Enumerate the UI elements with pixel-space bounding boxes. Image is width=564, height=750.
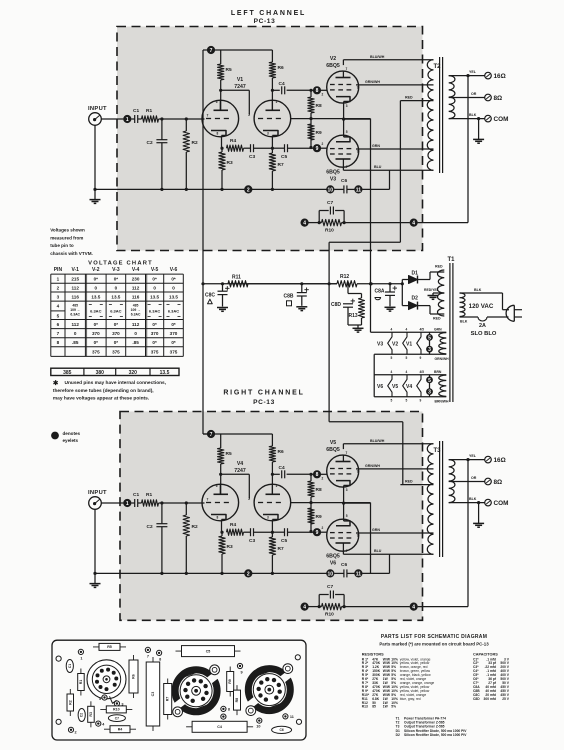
ground (HV center tap) xyxy=(428,295,439,297)
tube V5 envelope R xyxy=(327,455,359,487)
capacitor C2 L xyxy=(161,119,163,140)
svg-text:9: 9 xyxy=(241,671,243,675)
svg-text:2: 2 xyxy=(75,730,77,734)
svg-text:2: 2 xyxy=(247,571,250,577)
svg-text:1W: 1W xyxy=(383,705,389,709)
wire plate to splitter grid L xyxy=(219,89,222,92)
svg-text:5: 5 xyxy=(99,697,101,701)
heater eyelet 5 xyxy=(429,375,431,397)
wire diode anode bus xyxy=(401,280,403,306)
V4 pin1 stub R xyxy=(271,484,273,494)
svg-text:116: 116 xyxy=(132,294,140,299)
svg-text:2A: 2A xyxy=(479,323,486,329)
wire RED jog right xyxy=(329,421,403,423)
resistor R1 R xyxy=(138,502,142,504)
svg-text:R7: R7 xyxy=(278,162,284,168)
svg-text:370: 370 xyxy=(170,331,178,336)
svg-text:109 →: 109 → xyxy=(70,308,80,312)
resistor R6 R xyxy=(271,434,273,446)
svg-text:0*: 0* xyxy=(171,277,176,282)
svg-text:4: 4 xyxy=(391,328,393,332)
svg-text:0: 0 xyxy=(74,331,77,336)
svg-text:0*: 0* xyxy=(94,340,99,345)
tube V1 left envelope L xyxy=(202,100,239,137)
svg-text:0*: 0* xyxy=(152,340,157,345)
heater line top BRN xyxy=(374,374,446,376)
svg-text:R3: R3 xyxy=(227,544,233,550)
eyelet 9 L xyxy=(313,144,321,152)
svg-text:chassis with VTVM.: chassis with VTVM. xyxy=(50,251,93,256)
capacitor C1 R xyxy=(131,502,134,504)
ground (input) L xyxy=(90,199,101,201)
T3 core R xyxy=(439,441,441,557)
wire OR 8ohm R xyxy=(449,481,485,483)
svg-text:2: 2 xyxy=(322,477,324,481)
board tube socket (output tube) xyxy=(175,670,217,712)
C8C triangle mark xyxy=(208,299,213,304)
svg-text:6BQ5: 6BQ5 xyxy=(326,554,340,560)
board eyelet 11 xyxy=(283,714,288,719)
cathode junction wire R xyxy=(342,502,345,505)
svg-text:1: 1 xyxy=(57,277,60,282)
svg-text:V-5: V-5 xyxy=(151,267,159,273)
resistor R9 R xyxy=(308,508,314,524)
heater line bottom GRN/WH xyxy=(374,353,446,355)
V5 plate R xyxy=(336,461,351,463)
V4 left cathode R xyxy=(211,515,226,520)
svg-text:RED: RED xyxy=(433,317,441,321)
svg-text:10: 10 xyxy=(328,187,334,193)
svg-text:370: 370 xyxy=(92,331,100,336)
svg-text:R3: R3 xyxy=(89,712,93,717)
board part C1 xyxy=(66,660,73,673)
eyelet 2 R xyxy=(244,569,252,577)
svg-text:112: 112 xyxy=(132,322,140,327)
svg-text:8: 8 xyxy=(57,340,60,345)
capacitor C6 R xyxy=(334,572,343,574)
eyelet 9 R xyxy=(313,528,321,536)
svg-text:13.5: 13.5 xyxy=(150,294,159,299)
svg-text:8: 8 xyxy=(159,657,161,661)
svg-text:blue, gray, red: blue, gray, red xyxy=(400,697,421,701)
ground (COM) R xyxy=(477,501,480,504)
board part R5 xyxy=(93,646,126,648)
board eyelet 8 xyxy=(157,650,162,655)
input ground stem R xyxy=(94,509,96,583)
eyelet 10 R xyxy=(326,569,334,577)
svg-text:7: 7 xyxy=(346,67,348,71)
resistor R2 L xyxy=(185,119,187,131)
C8B square mark xyxy=(287,301,292,306)
svg-text:V5: V5 xyxy=(392,384,398,390)
wire R1 to grid L xyxy=(159,118,205,120)
120VAC loop top xyxy=(460,292,503,294)
svg-text:8: 8 xyxy=(228,707,230,711)
svg-text:T1: T1 xyxy=(447,257,455,263)
resistor R8 R xyxy=(310,474,312,481)
T2 primary winding L xyxy=(427,60,433,171)
svg-text:0*: 0* xyxy=(152,322,157,327)
wire RED feed left channel xyxy=(399,101,401,243)
resistor R6 L xyxy=(271,50,273,62)
svg-text:R2: R2 xyxy=(192,140,198,146)
svg-text:RED/YEL: RED/YEL xyxy=(424,288,439,292)
svg-text:0*: 0* xyxy=(94,322,99,327)
heater winding BRN xyxy=(439,375,447,396)
capacitor C8A xyxy=(389,284,391,292)
svg-text:375: 375 xyxy=(170,349,178,354)
svg-text:7: 7 xyxy=(346,451,348,455)
svg-text:5: 5 xyxy=(428,378,431,384)
eyelet 2 L xyxy=(244,185,252,193)
svg-text:R1: R1 xyxy=(146,108,152,114)
AC plug xyxy=(513,305,515,321)
resistor R12 xyxy=(337,281,357,287)
board eyelet 9 xyxy=(237,663,242,668)
svg-text:380: 380 xyxy=(96,370,105,376)
svg-text:9: 9 xyxy=(420,356,422,360)
svg-text:1: 1 xyxy=(276,100,278,104)
svg-text:6: 6 xyxy=(216,100,218,104)
svg-text:Unused pins may have internal: Unused pins may have internal connection… xyxy=(65,380,167,386)
V6 grids R xyxy=(330,532,335,534)
svg-text:7: 7 xyxy=(210,432,213,438)
svg-text:C8A: C8A xyxy=(375,289,385,295)
svg-text:9: 9 xyxy=(316,146,319,152)
V3 grids L xyxy=(330,148,335,150)
svg-text:25 V: 25 V xyxy=(502,697,510,701)
wire RED B+ to T2 L xyxy=(400,100,433,102)
terminal 8 ohm R xyxy=(485,478,492,485)
svg-text:8Ω: 8Ω xyxy=(494,479,503,486)
svg-text:0: 0 xyxy=(134,331,137,336)
V5 grids R xyxy=(330,468,335,470)
svg-text:6: 6 xyxy=(216,484,218,488)
svg-text:6.3AC: 6.3AC xyxy=(131,313,141,317)
svg-text:16Ω: 16Ω xyxy=(494,73,506,80)
cathode bus down R xyxy=(370,503,372,574)
svg-text:16Ω: 16Ω xyxy=(494,457,506,464)
T2 secondary winding L xyxy=(449,76,455,119)
svg-text:6BQ5: 6BQ5 xyxy=(326,63,340,69)
eyelet 4 left R xyxy=(301,603,309,611)
V6 cathode R xyxy=(336,521,350,526)
svg-text:R7: R7 xyxy=(166,697,170,702)
svg-text:6.3AC: 6.3AC xyxy=(70,313,80,317)
capacitor C7 R xyxy=(318,595,320,607)
svg-text:3: 3 xyxy=(57,294,60,299)
svg-text:7: 7 xyxy=(346,549,348,553)
ground (COM) L xyxy=(477,117,480,120)
svg-text:R10: R10 xyxy=(325,228,334,234)
svg-text:2: 2 xyxy=(57,286,60,291)
svg-text:C3: C3 xyxy=(249,538,255,544)
B+ top rail L xyxy=(203,49,272,51)
heater eyelet 5 xyxy=(429,332,431,354)
svg-text:5: 5 xyxy=(406,356,408,360)
svg-text:YEL: YEL xyxy=(469,454,477,458)
fuse xyxy=(460,316,479,318)
svg-text:V6: V6 xyxy=(330,561,336,567)
svg-text:4: 4 xyxy=(412,221,415,227)
board part R1 xyxy=(80,669,82,696)
svg-text:13.5: 13.5 xyxy=(160,370,170,376)
board eyelet 1 xyxy=(78,649,83,654)
svg-text:V1: V1 xyxy=(406,341,412,347)
terminal COM L xyxy=(485,115,492,122)
svg-text:.85: .85 xyxy=(72,340,79,345)
svg-text:7: 7 xyxy=(57,331,60,336)
svg-text:R3: R3 xyxy=(227,160,233,166)
svg-text:6.3AC: 6.3AC xyxy=(168,309,179,314)
svg-text:13.5: 13.5 xyxy=(91,294,100,299)
wire YEL 16ohm L xyxy=(449,75,485,77)
board part C6 xyxy=(272,726,292,733)
svg-text:8Ω: 8Ω xyxy=(494,95,503,102)
svg-text:120 VAC: 120 VAC xyxy=(469,303,494,310)
svg-text:BLK: BLK xyxy=(469,497,477,501)
svg-text:7247: 7247 xyxy=(234,468,246,474)
board eyelet 10 xyxy=(257,718,262,723)
svg-text:6.3AC: 6.3AC xyxy=(149,309,160,314)
svg-text:GRN: GRN xyxy=(372,144,380,148)
svg-text:C1: C1 xyxy=(133,492,139,498)
T2 core L xyxy=(439,57,441,173)
ground (C8B) xyxy=(296,306,307,308)
svg-text:5: 5 xyxy=(391,356,393,360)
svg-text:Silicon Rectifier Diode, 500 m: Silicon Rectifier Diode, 500 ma 1000 PIV xyxy=(404,733,467,737)
svg-text:BLK: BLK xyxy=(469,113,477,117)
wire splitter bias R xyxy=(291,502,371,504)
wire GRN screen V3 L xyxy=(356,148,434,150)
120VAC loop right xyxy=(502,293,504,310)
eyelet 8 R xyxy=(313,470,321,478)
wire GRN/WH screen V2 L xyxy=(356,84,434,86)
svg-text:C4: C4 xyxy=(217,725,222,729)
wire D2 to HV bottom xyxy=(429,306,431,314)
svg-text:R13: R13 xyxy=(349,313,358,319)
wire RED bus down xyxy=(328,242,330,422)
svg-text:BLU: BLU xyxy=(374,165,382,169)
svg-text:R4: R4 xyxy=(230,522,236,528)
V2 grids L xyxy=(330,84,335,86)
svg-text:9: 9 xyxy=(357,86,359,90)
eyelet 4 left L xyxy=(301,219,309,227)
svg-text:V4: V4 xyxy=(406,384,412,390)
ground rail R xyxy=(95,572,330,574)
svg-text:0*: 0* xyxy=(171,340,176,345)
HV center tap RED/YEL xyxy=(433,292,444,294)
svg-text:INPUT: INPUT xyxy=(88,106,107,112)
svg-text:4: 4 xyxy=(412,605,415,611)
svg-text:V-6: V-6 xyxy=(170,267,178,273)
svg-text:R8: R8 xyxy=(235,698,239,703)
board part R6 xyxy=(133,655,135,698)
svg-text:7: 7 xyxy=(207,114,209,118)
wire BLU/WH plate V2 L xyxy=(342,60,344,65)
svg-text:C6: C6 xyxy=(341,178,347,184)
wire feedback to eyelet 4 right L xyxy=(342,222,410,224)
svg-text:COM: COM xyxy=(494,116,509,123)
svg-text:C7: C7 xyxy=(327,200,333,206)
V1 pin1 stub L xyxy=(271,100,273,110)
svg-text:GRN/WH: GRN/WH xyxy=(365,80,380,84)
svg-text:R6: R6 xyxy=(278,449,284,455)
svg-text:6.3AC: 6.3AC xyxy=(90,309,101,314)
V1 right plate L xyxy=(266,109,281,111)
svg-text:5: 5 xyxy=(428,335,431,341)
svg-text:1: 1 xyxy=(126,501,129,507)
svg-text:R10: R10 xyxy=(325,612,334,618)
svg-text:BLU/WH: BLU/WH xyxy=(370,55,385,59)
capacitor C3 L xyxy=(244,147,251,149)
svg-text:5: 5 xyxy=(57,314,60,319)
board mounting holes xyxy=(56,656,61,661)
svg-text:C5: C5 xyxy=(206,649,211,653)
board part C7 xyxy=(108,715,125,722)
svg-text:7: 7 xyxy=(147,654,149,658)
svg-text:CAPACITORS: CAPACITORS xyxy=(473,652,498,656)
svg-text:13.5: 13.5 xyxy=(169,294,178,299)
resistor R4 R xyxy=(227,529,244,535)
svg-text:6BQ5: 6BQ5 xyxy=(326,447,340,453)
svg-text:PC-13: PC-13 xyxy=(254,18,276,25)
capacitor C4 R xyxy=(281,470,283,478)
V4 right plate R xyxy=(266,493,281,495)
svg-text:11: 11 xyxy=(356,571,362,577)
svg-text:PC-13: PC-13 xyxy=(253,399,275,406)
svg-text:4: 4 xyxy=(303,605,306,611)
svg-text:1: 1 xyxy=(126,117,129,123)
svg-text:V1: V1 xyxy=(237,77,243,83)
capacitor C4 L xyxy=(281,86,283,94)
svg-text:4: 4 xyxy=(303,221,306,227)
resistor R7 L xyxy=(269,153,275,171)
wire R12 to diodes xyxy=(357,283,402,285)
eyelet 11 R xyxy=(354,569,362,577)
svg-text:3: 3 xyxy=(428,347,431,353)
svg-text:9: 9 xyxy=(316,530,319,536)
V1 right grid L xyxy=(258,118,263,120)
board part R10 xyxy=(100,708,132,710)
svg-text:BRN: BRN xyxy=(434,370,442,374)
capacitor C1 L xyxy=(131,118,134,120)
svg-text:RED: RED xyxy=(405,96,413,100)
svg-text:4: 4 xyxy=(406,328,408,332)
V2 cathode L xyxy=(336,97,350,102)
left channel PC-13 board outline xyxy=(117,27,423,251)
board tube socket (output tube) xyxy=(248,669,290,711)
resistor R2 R xyxy=(185,503,187,515)
svg-text:3: 3 xyxy=(267,132,269,136)
svg-text:BRN/WH: BRN/WH xyxy=(435,399,449,403)
svg-text:215: 215 xyxy=(71,277,79,282)
resistor R3 L xyxy=(220,147,223,150)
cathode bus down L xyxy=(370,119,372,190)
svg-text:OR: OR xyxy=(471,476,477,480)
svg-text:R9: R9 xyxy=(316,514,322,520)
tube V3 envelope L xyxy=(327,135,359,167)
T3 secondary winding R xyxy=(449,460,455,503)
V2 plate L xyxy=(336,77,351,79)
V3 cathode L xyxy=(336,137,350,142)
svg-text:R5: R5 xyxy=(226,451,232,457)
resistor R1 L xyxy=(138,118,142,120)
svg-text:C8D: C8D xyxy=(473,697,480,701)
wire RED feed right channel xyxy=(402,422,404,485)
wire BLK COM L xyxy=(449,118,485,120)
board eyelet 5 xyxy=(102,695,107,700)
svg-text:C7: C7 xyxy=(115,716,119,720)
svg-text:R9: R9 xyxy=(316,130,322,136)
svg-text:BLU/WH: BLU/WH xyxy=(370,439,385,443)
svg-text:C3: C3 xyxy=(151,692,155,697)
ground (C8D/R13) xyxy=(353,327,364,329)
svg-text:C5: C5 xyxy=(281,538,287,544)
terminal 16 ohm R xyxy=(485,456,492,463)
svg-text:R2: R2 xyxy=(192,524,198,530)
svg-text:R1: R1 xyxy=(146,492,152,498)
svg-text:0*: 0* xyxy=(94,277,99,282)
capacitor C8D xyxy=(346,282,349,285)
svg-text:6.3AC: 6.3AC xyxy=(110,309,121,314)
svg-text:C6: C6 xyxy=(279,728,283,732)
resistor R7 R xyxy=(269,537,275,555)
svg-text:R6: R6 xyxy=(278,65,284,71)
svg-text:C8C: C8C xyxy=(205,293,215,299)
board part R3 xyxy=(90,701,92,727)
wire plate V1b to C4 L xyxy=(271,89,274,92)
eyelet 10 L xyxy=(326,185,334,193)
capacitor C2 R xyxy=(161,503,163,524)
heater eyelet 3 xyxy=(426,388,433,395)
T1 primary 120VAC coil xyxy=(460,293,466,317)
svg-text:V3: V3 xyxy=(330,177,336,183)
capacitor C3 R xyxy=(244,531,251,533)
board part R7 xyxy=(167,679,169,720)
svg-text:5%: 5% xyxy=(391,705,396,709)
svg-text:R6: R6 xyxy=(132,674,136,679)
svg-text:V5: V5 xyxy=(330,440,336,446)
wire B+ riser xyxy=(202,50,204,284)
svg-text:V-2: V-2 xyxy=(92,267,100,273)
board part C5 xyxy=(176,650,241,652)
svg-text:0*: 0* xyxy=(114,340,119,345)
svg-text:C2: C2 xyxy=(147,140,153,146)
svg-text:RIGHT CHANNEL: RIGHT CHANNEL xyxy=(223,390,304,397)
wire splitter bias L xyxy=(291,118,371,120)
svg-text:375: 375 xyxy=(151,349,159,354)
svg-text:C6: C6 xyxy=(341,562,347,568)
svg-text:✱: ✱ xyxy=(53,379,59,387)
svg-text:C2: C2 xyxy=(80,713,84,717)
board part C2 xyxy=(78,709,85,722)
svg-text:C5: C5 xyxy=(281,154,287,160)
svg-text:BLK: BLK xyxy=(460,320,468,324)
V1 left plate L xyxy=(214,109,229,111)
eyelet 7 R xyxy=(207,430,215,438)
resistor R8 L xyxy=(310,90,312,97)
svg-text:2: 2 xyxy=(322,526,324,530)
svg-text:8: 8 xyxy=(316,88,319,94)
svg-text:5: 5 xyxy=(406,399,408,403)
board part R4 xyxy=(104,728,136,730)
terminal 8 ohm L xyxy=(485,94,492,101)
svg-text:V2: V2 xyxy=(392,341,398,347)
wire RED jog left xyxy=(329,241,400,243)
resistor R11 xyxy=(228,281,248,287)
svg-text:may have voltages appear at th: may have voltages appear at these points… xyxy=(53,395,149,401)
